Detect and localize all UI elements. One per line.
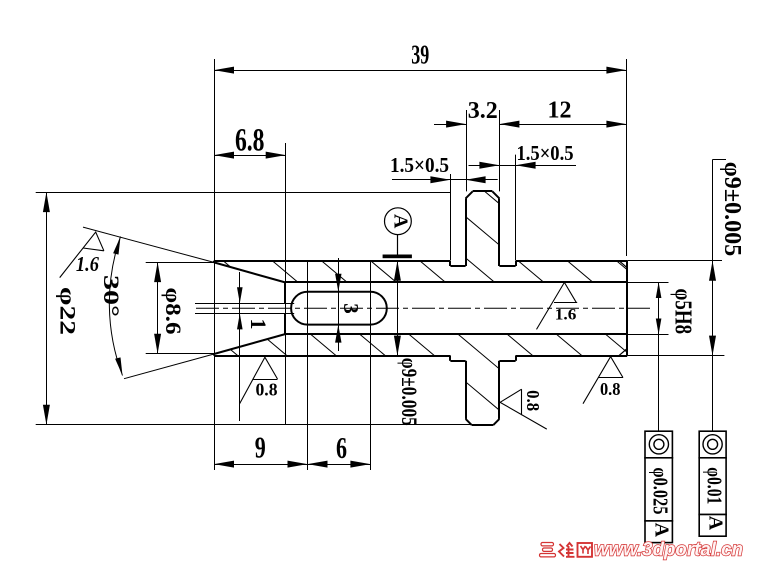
right end chamfer bottom bbox=[619, 349, 627, 356]
flange right face bbox=[498, 198, 500, 266]
part left face edge bbox=[213, 261, 215, 356]
dim 1 line bbox=[237, 272, 243, 421]
roughness 1.6 cone symbol bbox=[60, 232, 104, 278]
cone surface extension upper bbox=[83, 227, 214, 262]
dim phi8.6 line bbox=[154, 262, 161, 354]
dim phi5H8 leader to frame bbox=[658, 335, 660, 432]
watermark CJK wei bbox=[559, 543, 575, 557]
svg-text:φ8.6: φ8.6 bbox=[161, 288, 186, 335]
datum A circle bbox=[385, 208, 412, 235]
dim 6.8 extension line bbox=[285, 143, 287, 425]
dim 3.2 line bbox=[434, 121, 466, 128]
svg-text:39: 39 bbox=[411, 39, 429, 69]
svg-text:φ22: φ22 bbox=[56, 287, 81, 335]
svg-text:3: 3 bbox=[339, 303, 363, 314]
svg-text:φ5H8: φ5H8 bbox=[670, 289, 696, 335]
svg-text:φ0.025: φ0.025 bbox=[649, 467, 673, 514]
internal cone lower surface bbox=[214, 334, 285, 354]
orifice 1mm lines bbox=[195, 304, 294, 314]
cone apex wall bbox=[284, 282, 286, 335]
right relief groove bottom bbox=[499, 356, 516, 361]
dim phi9 right line bbox=[709, 160, 716, 432]
dim 6.8 line bbox=[214, 152, 286, 159]
tolerance frame 2 box bbox=[699, 431, 726, 536]
watermark CJK wang (net) bbox=[578, 543, 593, 557]
svg-text:0.8: 0.8 bbox=[600, 379, 621, 399]
internal cone upper surface bbox=[214, 262, 285, 282]
left relief groove top bbox=[450, 261, 466, 266]
callout 1.5x0.5 right dim line bbox=[469, 162, 577, 169]
svg-text:0.8: 0.8 bbox=[523, 390, 543, 411]
dim 30deg arc bbox=[109, 237, 122, 376]
dim phi22 extension line top bbox=[36, 192, 451, 194]
svg-text:φ9±0.005: φ9±0.005 bbox=[719, 162, 745, 257]
dim 9 extension line mid bbox=[307, 261, 309, 470]
right relief groove top bbox=[499, 261, 516, 266]
flange right face bottom bbox=[498, 361, 500, 419]
dim 6 line bbox=[308, 461, 371, 468]
dim phi5H8 line bbox=[656, 282, 662, 335]
svg-text:1.6: 1.6 bbox=[76, 252, 99, 276]
svg-text:0.8: 0.8 bbox=[256, 379, 278, 399]
svg-text:12: 12 bbox=[548, 96, 572, 123]
dim phi9 mid line bbox=[394, 261, 401, 356]
dim phi22 line bbox=[43, 192, 50, 425]
roughness 1.6 bore symbol bbox=[537, 282, 578, 329]
dim phi9 right extension lines bbox=[627, 261, 724, 356]
tolerance frame 2 concentricity symbol bbox=[703, 435, 722, 454]
left relief groove bottom bbox=[450, 356, 466, 361]
svg-text:1.5×0.5: 1.5×0.5 bbox=[517, 141, 574, 165]
datum A base bar bbox=[383, 255, 412, 259]
dim 39 line bbox=[214, 67, 626, 74]
dim 3.2 extension lines bbox=[467, 110, 500, 191]
watermark CJK san (three) bbox=[540, 543, 556, 557]
svg-text:6: 6 bbox=[336, 431, 347, 465]
svg-text:φ0.01: φ0.01 bbox=[703, 467, 727, 504]
dim phi5H8 extension lines bbox=[627, 283, 668, 335]
tolerance frame 1 concentricity symbol bbox=[649, 435, 668, 454]
callout 1.5x0.5 right extension line bbox=[515, 155, 517, 260]
svg-text:30°: 30° bbox=[99, 275, 124, 317]
svg-text:A: A bbox=[650, 523, 672, 538]
svg-text:A: A bbox=[389, 214, 411, 229]
svg-text:φ9±0.005: φ9±0.005 bbox=[397, 358, 422, 426]
svg-text:www.3dportal.cn: www.3dportal.cn bbox=[594, 539, 743, 561]
part centerline bbox=[196, 307, 650, 309]
part body bottom outline bbox=[214, 355, 627, 357]
part right face bbox=[626, 261, 628, 356]
flange bottom chamfers and bottom bbox=[466, 419, 500, 425]
bore phi5 lower line bbox=[285, 333, 627, 335]
svg-text:A: A bbox=[705, 516, 727, 531]
flange top chamfers and top bbox=[466, 191, 500, 198]
svg-text:1: 1 bbox=[246, 319, 271, 330]
dim phi8.6 extension lines bbox=[146, 263, 214, 354]
callout 1.5x0.5 left extension line bbox=[450, 174, 452, 260]
dim 9 extension line left bottom bbox=[214, 256, 216, 470]
dim phi9 right top tick bbox=[713, 159, 727, 161]
flange left face bottom bbox=[465, 361, 467, 419]
dim 39 extension lines bbox=[215, 59, 627, 256]
svg-text:9: 9 bbox=[255, 431, 266, 465]
dim 12 line bbox=[499, 121, 626, 128]
dim phi22 extension line bottom bbox=[36, 424, 471, 426]
svg-text:3.2: 3.2 bbox=[468, 97, 498, 124]
svg-text:6.8: 6.8 bbox=[235, 122, 265, 158]
roughness 0.8 left symbol bbox=[240, 357, 278, 404]
dim 3 line bbox=[335, 258, 341, 351]
slot stadium outline bbox=[291, 292, 387, 325]
right end chamfer top bbox=[619, 261, 627, 268]
roughness 0.8 right symbol bbox=[583, 357, 623, 404]
tolerance frame 1 box bbox=[645, 431, 672, 542]
dim 6 extension line right bbox=[370, 261, 372, 470]
flange left face bbox=[465, 198, 467, 266]
svg-text:1.6: 1.6 bbox=[555, 307, 577, 324]
callout 1.5x0.5 left dim line bbox=[392, 176, 498, 183]
cone surface extension lower bbox=[124, 354, 214, 379]
roughness 0.8 flange symbol bbox=[500, 389, 547, 429]
bore phi5 upper line bbox=[285, 281, 627, 283]
dim 9 line bbox=[214, 461, 308, 468]
part body top outline bbox=[214, 260, 627, 262]
datum A stem bbox=[397, 235, 399, 255]
svg-text:1.5×0.5: 1.5×0.5 bbox=[390, 153, 449, 177]
